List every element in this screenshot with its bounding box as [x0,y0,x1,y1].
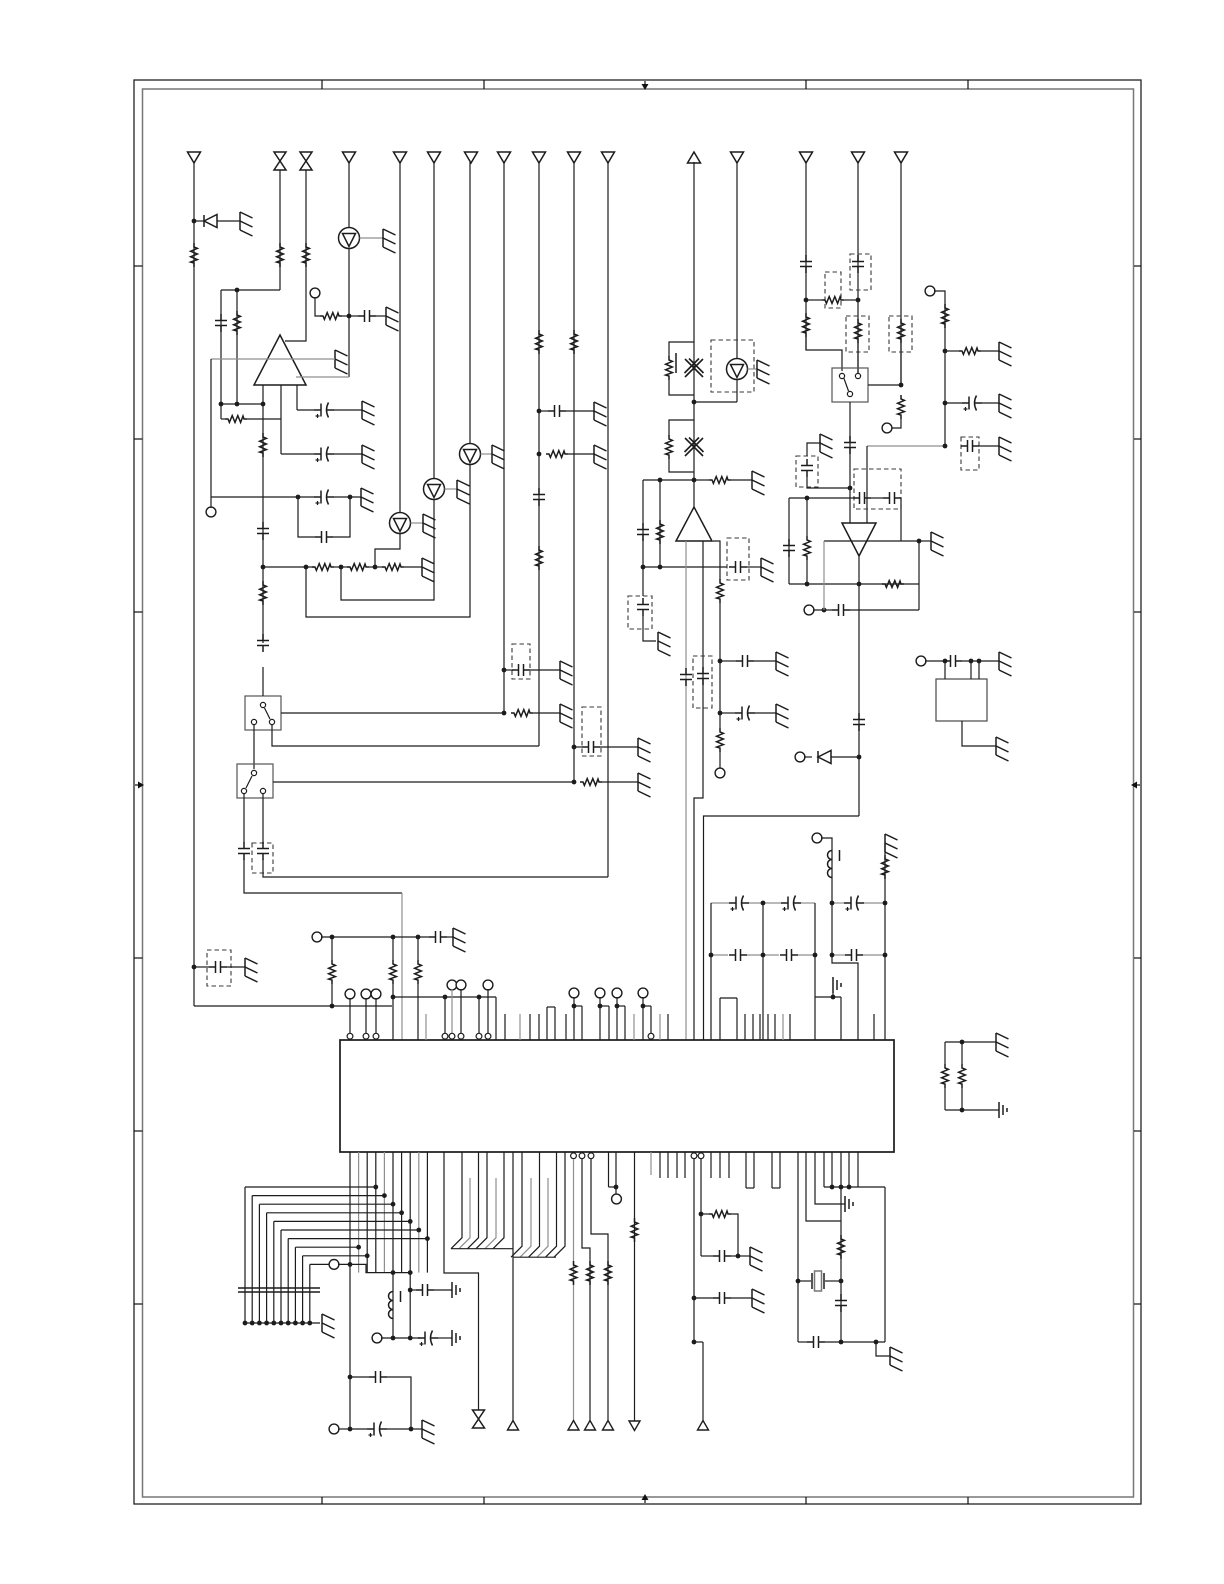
wire [850,497,853,499]
IC pin [759,1014,761,1040]
net connector [508,1421,519,1431]
junction [960,1040,965,1045]
IC pin [650,1006,652,1040]
signal ground [999,1102,1007,1118]
ground [776,704,789,728]
wire [221,289,280,291]
IC pin [797,1152,799,1342]
border frame inner [143,89,1134,1497]
junction [348,495,353,500]
bus wire [281,1229,419,1231]
wire [754,660,776,662]
bus wire [244,1187,246,1323]
ground [996,1033,1009,1057]
border tick [1134,957,1141,959]
capacitor [961,440,979,452]
wire [210,359,212,497]
capacitor [780,949,798,961]
wire [315,297,320,316]
resistor [312,564,334,571]
wire [832,993,834,997]
probe P5 [727,359,748,380]
wire [350,1376,369,1378]
wire [720,660,736,662]
junction [365,1253,370,1258]
IC pin [736,998,738,1040]
ground [245,958,258,982]
wire [762,903,764,1040]
junction [736,1254,741,1259]
ground [423,514,436,538]
IC pin [615,1152,617,1187]
op-amp U1 [254,335,306,385]
pin [495,997,497,1040]
IC pin bus [358,1152,360,1273]
border tick [321,1497,323,1504]
junction [883,901,888,906]
junction [391,1270,396,1275]
border tick [134,1303,143,1305]
resistor [260,433,267,457]
border frame outer [134,80,1141,1504]
capacitor [637,598,649,616]
junction [399,1210,404,1215]
wire [789,583,919,585]
dashed box [854,469,901,509]
wire [700,1214,702,1256]
capacitor [807,1336,825,1348]
wire [866,446,868,523]
ground [996,737,1009,761]
wire [376,315,386,317]
ground [322,1314,335,1338]
bus wire [274,1220,410,1222]
dashed box [825,272,841,308]
border tick [483,1497,485,1504]
pin link [600,1005,609,1007]
ground [820,434,833,458]
junction [537,409,542,414]
wire [693,1159,695,1342]
IC pin [624,1006,626,1040]
bus wire [537,1178,548,1257]
bus wire [267,1212,402,1214]
wire [392,937,394,960]
wire [815,996,841,998]
IC pin [831,1152,833,1187]
wire [806,337,842,371]
wire [979,445,999,447]
wire [731,1255,738,1257]
wire [220,290,222,404]
wire [694,1297,713,1299]
ground [999,342,1012,366]
IC pin [538,1014,540,1040]
resistor [709,477,731,484]
wire [867,445,945,447]
inverted pin [458,1033,464,1039]
dashed box [693,656,712,708]
wire [934,291,945,446]
wire [381,1337,420,1339]
capacitor [853,713,865,731]
wire [831,903,833,955]
wire [615,1187,617,1194]
polarized capacitor [735,706,755,722]
ground [594,445,607,469]
op-amp output line [685,541,687,1040]
wire [798,1341,807,1343]
border tick [805,80,807,89]
wire [245,1322,320,1324]
dashed box [207,950,231,986]
crystal bar [675,353,677,373]
junction [408,1288,413,1293]
wire [350,1428,367,1430]
ground [885,834,898,858]
wire [334,496,361,498]
resistor [390,960,397,984]
wire [262,794,264,843]
resistor [415,960,422,984]
capacitor [257,842,269,860]
signal ground [452,1330,460,1346]
wire [961,1042,963,1064]
junction [692,478,697,483]
wire [404,566,422,568]
bus wire [287,1239,289,1323]
resistor (trimmer loop) [666,356,673,380]
net line [591,1159,608,1421]
ground [638,738,651,762]
junction [899,383,904,388]
net line [736,162,738,359]
wire [788,498,790,584]
wire [281,453,314,455]
capacitor [533,488,545,506]
wire [669,380,694,395]
net connector (output) [688,152,701,163]
wire [280,419,282,454]
switch S1 [245,696,281,730]
resistor [320,313,342,320]
capacitor [835,1294,847,1312]
IC pin [608,1006,610,1040]
wire [375,534,400,568]
wire [643,479,694,481]
ground [362,445,375,469]
wire [643,566,727,568]
bus wire [451,1152,462,1249]
IC pin [684,1152,686,1178]
wire [868,384,901,386]
wire [711,902,729,904]
inverted pin [698,1153,704,1159]
resistor [329,960,336,984]
capacitor [257,634,269,652]
junction [761,901,766,906]
IC pin [519,1014,521,1040]
wire [221,418,225,420]
wire [296,385,298,410]
IC pin [823,1152,825,1187]
IC pin [767,1014,769,1040]
wire [417,984,419,1040]
junction [477,995,482,1000]
ground [362,401,375,425]
pin [444,997,446,1033]
net connector (bowtie) [300,152,312,170]
wire [713,541,720,580]
resistor [511,710,533,717]
wire [731,1297,752,1299]
IC pin [779,1152,781,1188]
wire [863,954,885,956]
junction [356,1245,361,1250]
junction [408,1336,413,1341]
junction [572,1004,577,1009]
wire [831,756,859,758]
junction [641,565,646,570]
IC pin [857,1152,859,1187]
wire [806,299,822,301]
polarized capacitor [781,896,801,912]
wire [341,500,434,601]
inverted pin [691,1153,697,1159]
junction [243,1321,248,1326]
inverted pin [485,1033,491,1039]
inverted pin [476,1033,482,1039]
IC pin [659,1014,661,1040]
junction [969,659,974,664]
terminal [925,286,935,296]
net connector (input) [800,152,813,163]
net line [634,1152,636,1421]
polarized capacitor [314,447,334,463]
capacitor [416,1284,434,1296]
resistor [717,728,724,752]
junction [279,1321,284,1326]
net line [503,162,505,713]
resistor [657,520,664,544]
junction [813,953,818,958]
bus crossing bar [238,1287,320,1289]
junction [416,935,421,940]
wire [900,498,902,541]
resistor [838,1235,845,1259]
junction [408,1270,413,1275]
terminal [916,656,926,666]
terminal [812,833,822,843]
ground [761,558,774,582]
probe P1 [339,228,360,249]
wire [263,566,315,568]
switch S1 output [272,725,539,746]
IC pin bus [375,1152,377,1273]
wire [438,1337,452,1339]
wire [813,609,832,611]
wire [220,404,222,419]
wire [824,1186,885,1188]
junction [831,995,836,1000]
wire [857,343,859,373]
wire [731,1214,738,1256]
capacitor [697,667,709,685]
polarized capacitor [314,490,334,506]
resistor [898,319,905,343]
capacitor [944,655,962,667]
signal ground [452,1282,460,1298]
net connector (input) [188,152,201,163]
junction [805,496,810,501]
ground [386,307,399,331]
resistor [605,1261,612,1285]
wire [731,479,752,481]
junction [391,1336,396,1341]
signal ground [833,977,841,993]
inverted pin [442,1033,448,1039]
resistor [571,330,578,354]
junction [857,582,862,587]
capacitor [713,1250,731,1262]
net connector [629,1421,640,1431]
capacitor [783,539,795,557]
wire [925,660,944,662]
wire [962,660,999,662]
resistor [959,348,981,355]
probe P4 [460,444,481,465]
wire [411,522,424,524]
wire [331,984,333,1006]
border tick [134,957,143,959]
bus wire [303,1255,368,1257]
op-amp U2 [676,507,712,541]
net connector [585,1421,596,1431]
resistor [277,243,284,267]
net connector [568,1421,579,1431]
wire [539,410,548,412]
IC pin [752,1014,754,1040]
junction [917,539,922,544]
IC pin [667,1152,669,1178]
net connector (input) [568,152,581,163]
probe P2 [424,479,445,500]
pin [451,989,453,1033]
resistor [882,855,889,879]
wire [568,453,594,455]
junction [339,565,344,570]
junction [709,953,714,958]
net connector (input) [731,152,744,163]
wire [704,816,860,1040]
switch S2 [237,764,273,798]
pin link [547,1006,555,1008]
resistor [898,395,905,419]
pin [970,661,972,679]
wire [806,498,808,536]
capacitor [358,310,376,322]
wire [417,937,419,960]
net line [279,170,281,290]
wire [338,1428,350,1430]
junction [330,1004,335,1009]
border tick [1134,1130,1141,1132]
ground [361,488,374,512]
wire [807,477,850,488]
ground [560,661,573,685]
wire [296,358,335,360]
wire [306,465,470,618]
wire [262,385,264,404]
junction [192,219,197,224]
wire [747,954,779,956]
wire [411,1428,422,1430]
op-amp input wire [296,376,349,378]
wire [669,342,694,357]
border tick [134,1130,143,1132]
bus wire [459,1178,470,1249]
wire [825,1341,885,1343]
terminal [371,989,381,999]
wire [701,1213,709,1215]
resistor [587,1261,594,1285]
IC pin bus [366,1152,368,1273]
wire [876,1342,890,1356]
IC pin [633,1014,635,1040]
junction [718,711,723,716]
ground [658,632,671,656]
pin [944,661,946,679]
junction [348,1375,353,1380]
junction [830,1185,835,1190]
border tick [967,1497,969,1504]
junction [261,565,266,570]
bus wire [520,1178,531,1257]
junction [537,452,542,457]
junction [293,1321,298,1326]
ground [457,480,470,504]
bus wire [546,1152,557,1257]
net line [702,1342,704,1421]
IC pin bus [392,1152,394,1338]
resistor [234,311,241,335]
net line [900,162,902,385]
wire [825,1280,841,1282]
pin link [720,997,737,999]
wire [747,566,761,568]
net line [573,1159,575,1421]
bus wire [245,1186,376,1188]
net line [805,162,807,350]
net line [607,162,609,877]
terminal [595,988,605,998]
inverted pin [347,1033,353,1039]
dashed box [582,707,601,756]
resistor [804,536,811,560]
wire [334,566,350,568]
wire [961,1088,963,1110]
capacitor [736,655,754,667]
net line [512,1152,514,1421]
junction [192,965,197,970]
wire [401,893,403,1040]
wire [823,541,825,610]
wire [263,859,608,877]
junction [805,582,810,587]
IC pin bus [426,1152,428,1273]
junction [257,1321,262,1326]
polarized capacitor [418,1331,438,1347]
